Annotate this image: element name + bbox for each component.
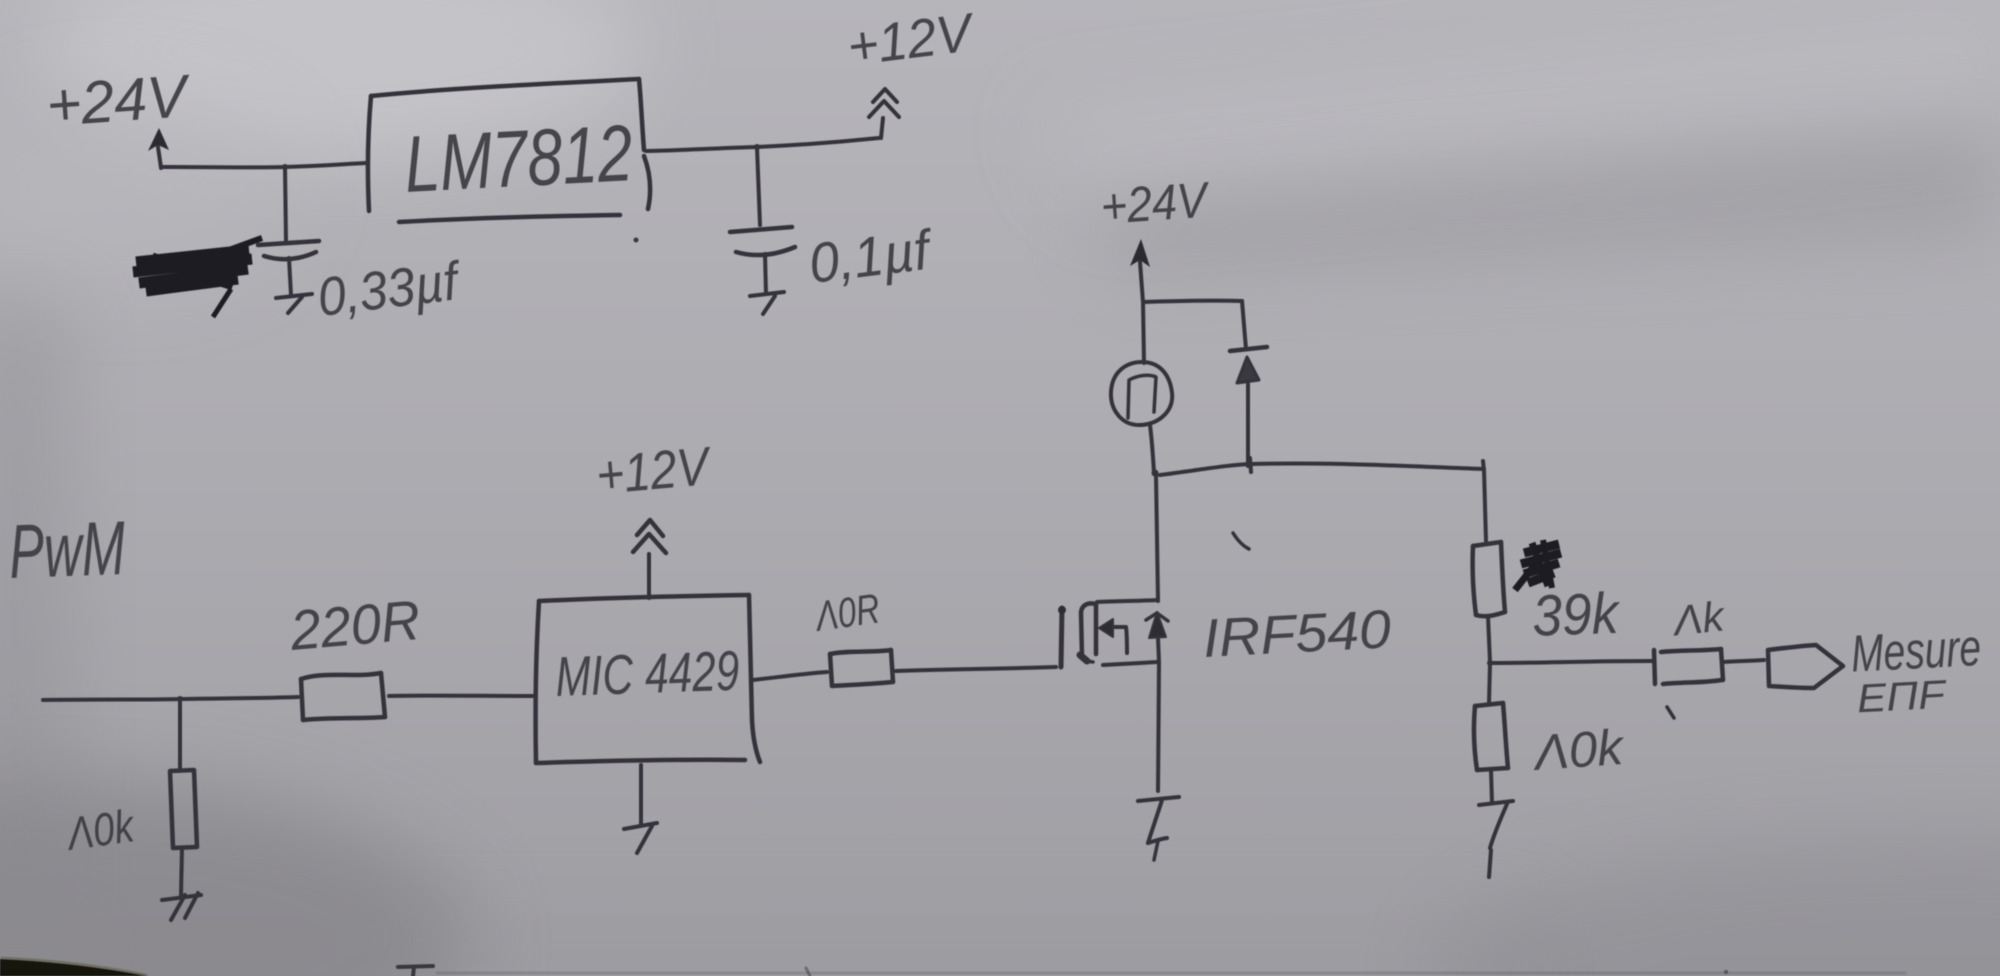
svg-text:+24V: +24V [44,62,193,139]
wire: R5 to ground [1491,770,1492,803]
wire: branch to flyback diode [1144,301,1246,349]
wire: PWM node down to R2 [178,701,182,768]
ground under Q1 source [1138,797,1179,860]
table edge (dark) at bottom-left [0,958,148,976]
svg-text:220R: 220R [287,588,423,662]
scribble above 39k [1515,540,1561,590]
wire: R4 to divider mid node [1488,616,1490,662]
power arrow +12V (top right) [869,89,899,138]
diode D1 (flyback) [1230,347,1267,466]
power arrow +24V (motor) [1130,239,1150,302]
ground under C1 [276,294,312,313]
wire: R6 to connector [1723,660,1764,662]
tick mark (apostrophe) [1667,707,1674,718]
wire: motor to drain node [1150,425,1154,473]
capacitor C2 0,1uF [730,147,795,294]
resistor R4 39k [1473,542,1505,616]
resistor R2 10k pulldown [170,770,197,848]
svg-text:Λ0R: Λ0R [811,584,882,640]
scribble (crossed-out mark) [133,238,262,317]
motor M1 [1111,362,1172,425]
svg-text:IRF540: IRF540 [1201,599,1392,669]
resistor R5 10k (divider low) [1474,703,1508,770]
wire: +24V arrow down to motor top [1143,302,1144,363]
wire: drain node to divider corner [1160,458,1486,541]
svg-text:+24V: +24V [1099,171,1213,235]
resistor R3 10R [830,650,893,686]
wire: U2 output to R3 [753,672,827,680]
wire: R1 to U2 input [389,694,534,698]
svg-text:+12V: +12V [594,436,715,506]
wire: R3 to gate [896,667,1056,671]
ground under C2 [750,292,784,314]
capacitor C1 0,33uF [258,167,319,295]
regulator U1 LM7812 box [368,79,650,222]
svg-text:MIC 4429: MIC 4429 [554,639,740,708]
svg-text:Λ0k: Λ0k [1530,719,1628,781]
wire: divider mid to R5 [1489,664,1490,703]
resistor R6 1k [1654,649,1723,684]
svg-text:39k: 39k [1531,581,1622,649]
transistor Q1 IRF540 [1058,475,1168,791]
ground under R2 [162,893,201,920]
svg-text:Λ0k: Λ0k [62,799,139,860]
stray dot mark [634,238,639,243]
driver U2 MIC4429 box [536,595,760,763]
svg-text:Λk: Λk [1669,592,1728,644]
stray curved tick near drain [1233,533,1249,549]
wire: +24V rail to LM7812 input [161,163,366,167]
partial drawing at photo bottom edge [398,966,1905,976]
power arrow +24V input [148,128,169,168]
svg-text:EΠF: EΠF [1856,673,1949,722]
wire: LM7812 output to +12V arrow [646,138,879,151]
wire: U2 to ground [639,765,643,825]
ground under U2 [624,823,657,853]
wire: divider mid to R6 [1492,661,1652,663]
svg-text:LM7812: LM7812 [402,108,634,209]
wire: PWM input line [43,697,298,700]
connector flag: Mesure EMF output [1768,645,1843,688]
wire: R2 to ground [181,848,182,895]
resistor R1 220R [301,673,385,720]
svg-text:PwM: PwM [8,506,127,595]
ground under R5 [1479,801,1513,877]
power arrow +12V (U2) [633,520,666,598]
